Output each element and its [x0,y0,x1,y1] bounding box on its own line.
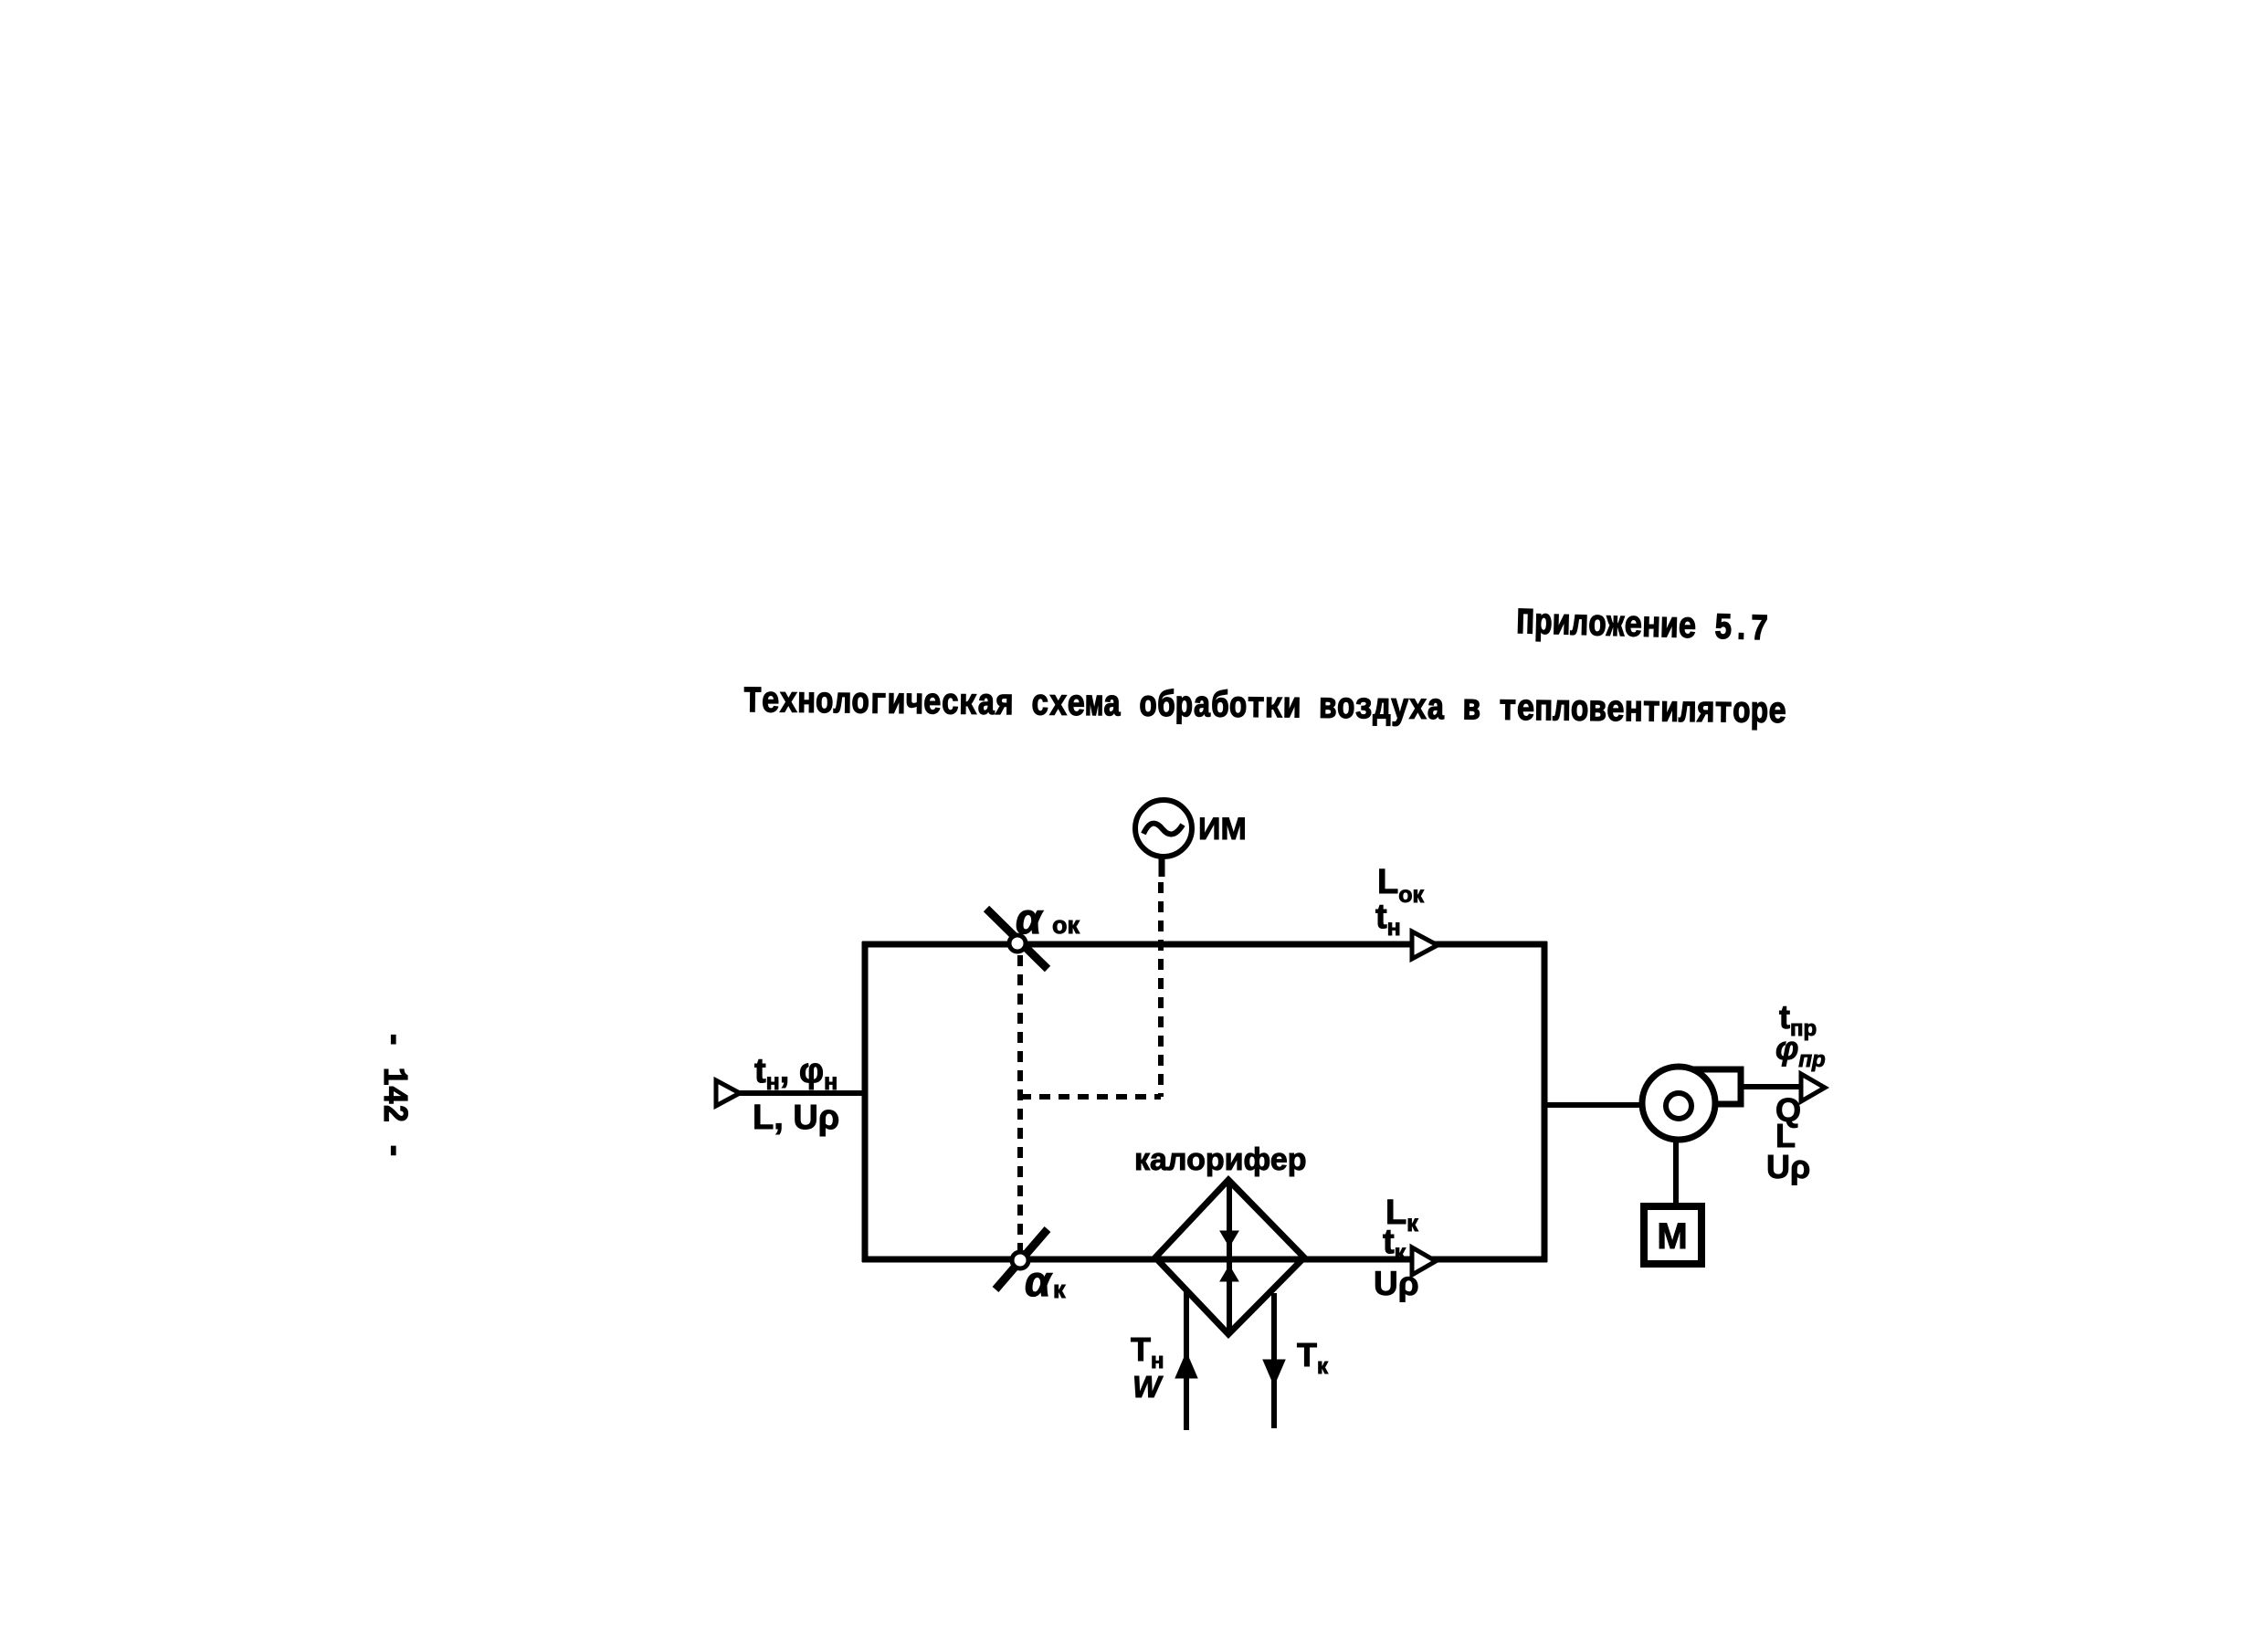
wire: duct to fan [1544,1102,1644,1108]
fan outlet open arrowhead [1801,1074,1825,1101]
svg-text:W: W [1132,1370,1164,1404]
arrow on top duct (open) [1412,931,1438,959]
duct: top horizontal wire [862,942,1547,948]
damper α_к (bottom): slash + pivot circle [996,1229,1048,1289]
wire: input line [738,1090,865,1096]
wire: dashed horizontal control link [1020,1094,1161,1100]
actuator ИМ: circle with tilde [1135,800,1192,857]
svg-text:L, Uρ: L, Uρ [753,1099,839,1137]
arrow on bottom duct (open) [1412,1247,1436,1275]
svg-text:Приложение 5.7: Приложение 5.7 [1516,604,1769,651]
pipe Tн supply (up arrow) [1184,1291,1189,1430]
duct: bottom horizontal wire [862,1257,1547,1263]
heater internal line with flow arrows [1227,1184,1232,1331]
input open arrowhead [716,1080,740,1106]
wire: dashed control line from ИМ down [1158,882,1164,1097]
svg-text:Uρ: Uρ [1766,1148,1810,1185]
svg-text:- 142 -: - 142 - [374,1030,413,1160]
wire: stub below ИМ [1159,856,1165,877]
svg-text:к: к [1053,1276,1066,1303]
svg-text:α: α [1025,1257,1053,1305]
svg-text:М: М [1657,1216,1687,1257]
motor M box [1644,1206,1701,1264]
svg-text:ИМ: ИМ [1198,812,1247,847]
wire: fan to motor [1673,1140,1679,1206]
svg-text:калорифер: калорифер [1134,1142,1307,1177]
wire: dashed damper linkage vertical [1017,955,1023,1254]
fan outlet wire [1741,1084,1803,1089]
pipe Tк return (down arrow) [1271,1293,1277,1428]
duct: left vertical wire [862,942,869,1262]
svg-text:Uρ: Uρ [1374,1265,1419,1302]
damper α_ок (top): slash + pivot circle [986,909,1048,969]
fan: volute housing [1676,1069,1741,1104]
fan: impeller circles [1642,1067,1715,1140]
heater калорифер: diamond [1155,1180,1304,1334]
svg-text:α: α [1016,895,1044,942]
svg-text:ок: ок [1052,911,1080,939]
duct: right vertical wire [1542,942,1548,1262]
